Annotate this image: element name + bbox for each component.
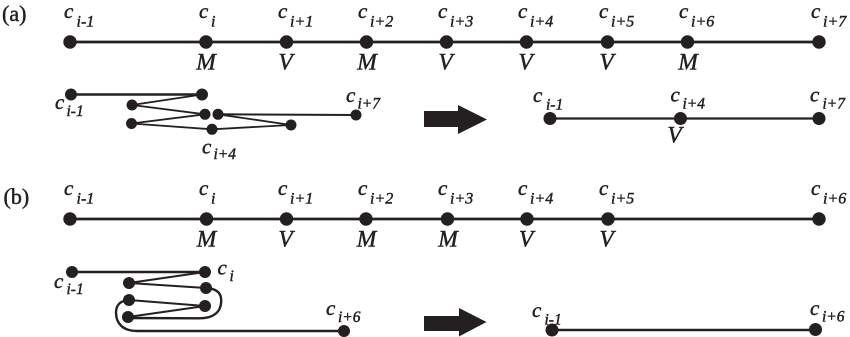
label c_i+3 (a top) [438,0,473,31]
node fold-b c_i+5 [124,295,135,306]
svg-text:i+6: i+6 [691,14,714,31]
svg-text:c: c [54,269,64,293]
svg-text:c: c [811,176,821,200]
node c_i+1 (a top) [280,36,292,48]
node fold-b c_i-1 [67,267,78,278]
node fold-a c_i+7 [351,110,361,120]
wire fold-a c_i+5 to c_i+6 [218,114,291,125]
wire fold-a c_i+1 to c_i+2 [132,105,205,114]
wire chain-a backbone [70,41,819,44]
svg-text:c: c [278,0,288,23]
node c_i+1 (b top) [280,213,292,225]
svg-text:c: c [346,83,356,107]
svg-text:i+4: i+4 [530,14,553,31]
label fold-b c_i-1 [54,269,84,298]
svg-text:c: c [679,0,689,23]
label c_i (b top) [199,176,215,208]
wire fold-b arc c_i+2 to c_i+3 [128,288,221,318]
svg-text:i+7: i+7 [358,96,382,113]
svg-text:i-1: i-1 [546,97,563,114]
label c_i-1 (a top) [64,0,94,31]
svg-text:i-1: i-1 [67,281,84,298]
node reduced-a c_i+4 [675,113,687,125]
label reduced-a c_i+4 [671,83,706,113]
label fold-a c_i+7 [346,83,381,113]
svg-text:M: M [677,50,699,76]
label c_i+2 (b top) [358,176,393,208]
svg-text:i+6: i+6 [823,191,846,208]
svg-text:i+2: i+2 [370,14,393,31]
svg-text:c: c [438,0,448,23]
wire fold-b arc c_i+5 to c_i+6 [116,300,344,331]
node reduced-a c_i-1 [544,113,556,125]
svg-text:M: M [356,50,378,76]
label fold-b c_i [218,256,234,286]
node c_i-1 (b top) [64,213,76,225]
svg-text:c: c [438,176,448,200]
node fold-a c_i+4 [207,124,217,134]
wire reduced-a backbone [550,117,819,119]
svg-text:c: c [358,176,368,200]
label c_i+6 (b top) [811,176,846,208]
wire fold-b c_i+3 to c_i+4 [128,306,205,317]
node c_i+5 (b top) [602,213,614,225]
svg-text:(a): (a) [2,1,26,26]
svg-text:c: c [199,0,209,23]
node c_i+3 (a top) [440,36,452,48]
node c_i+6 (b top) [813,213,825,225]
svg-text:i+6: i+6 [338,309,361,326]
label c_i+3 (b top) [438,176,473,208]
node c_i+6 (a top) [681,36,693,48]
wire fold-a c_i to c_i+1 [132,95,202,106]
node fold-a c_i+5 [286,120,296,130]
label c_i+5 (a top) [599,0,634,31]
wire fold-a c_i+4 to c_i+5 [212,125,291,129]
svg-text:i+1: i+1 [290,191,313,208]
svg-text:i: i [211,191,215,208]
svg-text:M: M [195,50,217,76]
svg-text:i+5: i+5 [611,14,634,31]
node c_i (b top) [200,213,212,225]
label c_i+7 (a top) [811,0,847,31]
svg-text:c: c [278,176,288,200]
node fold-a c_i+6 [213,109,223,119]
node fold-b c_i+6 [339,326,350,337]
label c_i+1 (b top) [278,176,313,208]
svg-text:i+5: i+5 [611,191,634,208]
svg-text:i-1: i-1 [67,103,84,120]
svg-text:i+7: i+7 [823,96,847,113]
svg-text:c: c [518,176,528,200]
node c_i+4 (a top) [520,36,532,48]
node reduced-b c_i+6 [810,324,822,336]
label fold-a c_i+4 [202,135,236,164]
node fold-a c_i+2 [200,109,210,119]
wire fold-a c_i+6 to c_i+7 [218,113,356,116]
svg-text:c: c [518,0,528,23]
label c_i+4 (a top) [518,0,553,31]
wire reduced-b backbone [552,329,816,331]
svg-text:i-1: i-1 [77,191,95,208]
node c_i (a top) [200,36,212,48]
svg-text:c: c [55,90,65,114]
svg-text:c: c [599,0,609,23]
node c_i+5 (a top) [601,36,613,48]
node reduced-a c_i+7 [813,113,825,125]
svg-text:i+1: i+1 [290,14,313,31]
node c_i+2 (a top) [360,36,372,48]
svg-text:i+4: i+4 [214,146,237,163]
svg-text:c: c [64,176,74,200]
svg-text:M: M [196,227,218,253]
label c_i+4 (b top) [518,176,553,208]
node c_i-1 (a top) [64,36,76,48]
label c_i+5 (b top) [599,176,634,208]
wire fold-b c_i-1 to c_i [72,271,205,273]
label c_i+1 (a top) [278,0,313,31]
svg-text:i+4: i+4 [530,191,553,208]
label c_i (a top) [199,0,215,31]
svg-text:c: c [532,298,542,322]
label fold-b c_i+6 [326,296,361,326]
wire fold-a c_i-1 to c_i [71,93,202,96]
label reduced-a c_i-1 [533,83,563,114]
svg-text:c: c [199,176,209,200]
svg-text:(b): (b) [4,184,30,209]
svg-text:c: c [358,0,368,23]
svg-text:c: c [810,83,820,107]
node fold-a c_i-1 [66,89,77,100]
svg-text:i-1: i-1 [545,312,562,329]
node fold-b c_i+3 [123,312,134,323]
svg-text:i+2: i+2 [370,191,393,208]
node c_i+2 (b top) [360,213,372,225]
node fold-a c_i [197,89,208,100]
svg-text:i: i [230,268,234,285]
node c_i+4 (b top) [521,213,533,225]
svg-text:i: i [211,14,215,31]
node fold-a c_i+3 [127,119,137,129]
wire fold-b c_i+4 to c_i+5 [129,300,205,306]
svg-text:c: c [811,0,821,23]
label reduced-a c_i+7 [810,83,846,113]
svg-text:c: c [64,0,74,23]
label fold-a c_i-1 [55,90,84,120]
svg-text:i+3: i+3 [450,191,473,208]
svg-text:M: M [356,227,378,253]
svg-text:i+4: i+4 [683,96,706,113]
svg-text:i-1: i-1 [77,14,95,31]
node fold-b c_i [200,267,211,278]
svg-text:c: c [599,176,609,200]
svg-text:i+3: i+3 [450,14,473,31]
svg-text:c: c [810,296,820,320]
node fold-b c_i+4 [200,301,211,312]
svg-text:c: c [326,296,336,320]
label c_i-1 (b top) [64,176,94,208]
svg-text:M: M [437,227,459,253]
label reduced-b c_i-1 [532,298,562,329]
svg-text:c: c [218,256,228,280]
svg-text:c: c [202,135,212,159]
node reduced-b c_i-1 [546,324,558,336]
node fold-b c_i+1 [124,278,135,289]
node fold-a c_i+1 [127,100,137,110]
wire chain-b backbone [70,218,819,221]
label c_i+2 (a top) [358,0,393,31]
node fold-b c_i+2 [201,283,212,294]
arrow b [424,308,487,337]
wire fold-a c_i+3 to c_i+4 [132,124,213,130]
wire fold-b c_i+1 to c_i+2 [129,283,206,288]
svg-text:i+6: i+6 [822,309,845,326]
node c_i+3 (b top) [441,213,453,225]
arrow a [424,105,487,134]
node c_i+7 (a top) [813,36,825,48]
svg-text:i+7: i+7 [823,14,847,31]
label reduced-b c_i+6 [810,296,845,326]
label c_i+6 (a top) [679,0,714,31]
wire fold-a c_i+2 to c_i+3 [132,114,206,123]
wire fold-b c_i to c_i+1 [129,272,205,283]
svg-text:c: c [671,83,681,107]
svg-text:c: c [533,83,543,107]
